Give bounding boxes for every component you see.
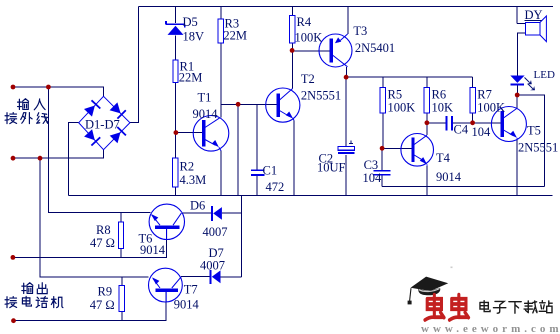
wire D6 anode to vertical xyxy=(222,212,242,214)
node input terminal 2 xyxy=(11,156,16,161)
capacitor C2 electrolytic xyxy=(338,141,355,154)
transistor T5 xyxy=(491,107,526,142)
resistor R3 xyxy=(218,19,223,43)
node T5 base junction xyxy=(470,120,475,125)
wire T1 emitter to ground rail xyxy=(220,151,222,196)
svg-text:T5: T5 xyxy=(527,124,541,138)
wire T5 collector riser xyxy=(516,95,518,108)
svg-text:2N5551: 2N5551 xyxy=(301,89,341,103)
diode D6 xyxy=(212,206,222,221)
LED xyxy=(510,76,535,91)
wire R9 top lead xyxy=(121,277,123,286)
transistor T7 xyxy=(149,268,183,302)
wire from input top junction down to T6 emitter row xyxy=(48,87,150,213)
wire T4 base xyxy=(382,147,413,149)
svg-text:472: 472 xyxy=(266,180,285,194)
wire from input lower junction down to T7 emitter row xyxy=(40,158,149,277)
svg-text:4007: 4007 xyxy=(203,225,228,239)
wire R3 top lead xyxy=(220,7,222,20)
resistor R4 xyxy=(290,16,295,44)
wire R7 bottom lead xyxy=(472,113,474,123)
svg-text:T3: T3 xyxy=(353,24,367,38)
svg-text:47 Ω: 47 Ω xyxy=(90,298,115,312)
wire R8 top lead xyxy=(120,213,122,222)
svg-text:D6: D6 xyxy=(190,199,205,213)
wire C3 bottom lead xyxy=(381,175,383,186)
wire T4 collector riser xyxy=(426,123,428,135)
svg-text:4007: 4007 xyxy=(200,259,225,273)
svg-text:www.eeworm.com: www.eeworm.com xyxy=(421,323,560,334)
wire T1 collector riser xyxy=(220,104,222,117)
node input terminal 1 xyxy=(11,85,16,90)
svg-text:DY: DY xyxy=(525,8,543,22)
transistor T6 xyxy=(149,204,184,239)
node label output chinese shu-chu xyxy=(22,283,47,294)
logo chongchong red characters xyxy=(425,295,469,320)
svg-text:10K: 10K xyxy=(432,101,454,115)
wire input bottom terminal to bridge bottom corner xyxy=(13,150,104,159)
wire T1 collector rail to T2 base xyxy=(221,103,278,105)
wire R6 bottom lead xyxy=(426,113,428,123)
node T1 collector junction xyxy=(236,102,241,107)
node output terminal 2 xyxy=(11,318,16,323)
wire D5 anode to R1 xyxy=(175,36,177,60)
wire T2 emitter to ground rail xyxy=(293,121,295,196)
node T4 base junction xyxy=(380,146,385,151)
capacitor C4 xyxy=(447,116,452,131)
wire output bottom terminal to T7 base xyxy=(14,292,167,321)
wire T3 collector to node xyxy=(345,67,347,77)
svg-text:104: 104 xyxy=(472,125,492,139)
resistor R5 xyxy=(380,88,385,114)
wire C1 bottom lead xyxy=(256,176,258,196)
svg-text:100K: 100K xyxy=(477,101,505,115)
svg-text:4.3M: 4.3M xyxy=(180,173,207,187)
svg-text:R7: R7 xyxy=(477,88,492,102)
node input junction top xyxy=(46,85,51,90)
wire LED cathode lead xyxy=(516,85,518,95)
zener diode D5 xyxy=(166,21,185,35)
diode bridge D1-D7 xyxy=(79,96,130,149)
svg-text:18V: 18V xyxy=(183,30,205,44)
logo graduation cap xyxy=(411,277,449,291)
wire T3 emitter to top rail xyxy=(347,7,349,34)
svg-text:R2: R2 xyxy=(180,160,195,174)
wire T5 emitter to ground rail xyxy=(516,139,518,196)
wire LED cathode node to right riser xyxy=(517,95,544,186)
wire left border down to bridge right corner xyxy=(130,7,139,123)
capacitor C1 xyxy=(251,170,265,175)
svg-text:2N5551: 2N5551 xyxy=(518,141,558,155)
node T2 collector junction xyxy=(290,48,295,53)
svg-text:10UF: 10UF xyxy=(317,161,346,175)
svg-text:9014: 9014 xyxy=(436,170,462,184)
wire R3 bottom to T1 collector rail xyxy=(220,43,222,104)
svg-text:22M: 22M xyxy=(179,71,203,85)
wire top supply rail xyxy=(139,6,554,8)
wire R5 top lead xyxy=(382,77,384,87)
transistor T3 pnp xyxy=(319,34,352,67)
svg-text:D5: D5 xyxy=(183,15,198,29)
transistor T1 xyxy=(193,116,229,152)
bridge diode bottom-right xyxy=(110,132,121,143)
wire R6 top lead xyxy=(426,77,428,87)
resistor R6 xyxy=(424,88,429,114)
wire LED return rail y186 xyxy=(382,185,544,187)
wire output top terminal to T6 base xyxy=(13,229,167,257)
svg-text:100K: 100K xyxy=(388,101,416,115)
wire top rail to D5 cathode xyxy=(175,7,177,24)
svg-text:9014: 9014 xyxy=(193,107,219,121)
wire R1 to T1 base node xyxy=(175,82,177,132)
transistor T4 xyxy=(401,134,434,167)
svg-text:C4: C4 xyxy=(454,123,469,137)
svg-text:R9: R9 xyxy=(98,285,113,299)
svg-text:T1: T1 xyxy=(198,91,212,105)
wire T2 collector riser xyxy=(292,50,294,88)
node label connect-outside-line chinese jie-wai-xian xyxy=(5,113,48,124)
wire input top terminal to bridge top corner xyxy=(13,87,104,96)
capacitor C3 xyxy=(373,171,390,175)
wire C4 right plate to T5 base xyxy=(452,122,502,124)
svg-text:R6: R6 xyxy=(432,88,447,102)
resistor R7 xyxy=(470,88,475,114)
logo black site name dian-zi-xia-zai-zhan xyxy=(480,301,552,314)
svg-text:R5: R5 xyxy=(388,88,403,102)
wire speaker top lead to top rail xyxy=(517,7,526,24)
wire ground rail xyxy=(69,194,553,196)
wire T6 collector to D6 xyxy=(181,212,211,214)
node LED cathode junction xyxy=(515,93,520,98)
wire R8 bottom lead xyxy=(120,249,122,258)
transistor T2 xyxy=(266,88,300,122)
resistor R8 xyxy=(118,222,123,249)
bridge diode top-right xyxy=(110,102,121,113)
svg-text:D1-D7: D1-D7 xyxy=(85,118,120,132)
node T3 collector junction xyxy=(344,75,349,80)
wire vertical joining D6 D7 to ground rail xyxy=(241,195,243,276)
wire T1 base xyxy=(176,132,204,134)
resistor R9 xyxy=(119,286,124,312)
svg-text:T2: T2 xyxy=(301,72,315,86)
diode D7 xyxy=(211,270,221,284)
svg-text:9014: 9014 xyxy=(140,243,166,257)
wire R4 bottom lead xyxy=(291,43,293,50)
svg-text:100K: 100K xyxy=(295,31,323,45)
node T4 collector junction xyxy=(425,120,430,125)
wire LED anode lead to speaker xyxy=(517,33,525,75)
wire C2 bottom lead xyxy=(345,155,347,195)
wire D7 anode to vertical xyxy=(221,276,242,278)
wire bridge left corner down to ground rail xyxy=(69,123,79,196)
wire node x238 down to ground rail xyxy=(237,104,239,195)
bridge diode bottom-left xyxy=(84,129,95,140)
wire C3 top lead xyxy=(381,148,383,170)
svg-text:T7: T7 xyxy=(184,283,198,297)
speaker DY xyxy=(524,16,546,42)
svg-text:9014: 9014 xyxy=(174,298,200,312)
wire R4 top lead xyxy=(291,7,293,16)
node label input chinese shu-ru xyxy=(18,99,46,110)
node input junction bottom xyxy=(38,156,43,161)
wire R9 bottom lead xyxy=(121,311,123,320)
svg-text:C1: C1 xyxy=(263,164,278,178)
wire node to C4 left plate xyxy=(427,122,446,124)
svg-text:104: 104 xyxy=(363,171,383,185)
wire R4 node to T3 base xyxy=(292,50,331,52)
svg-text:47 Ω: 47 Ω xyxy=(90,236,115,250)
node T1 base junction xyxy=(174,130,179,135)
bridge diode top-left xyxy=(84,106,95,117)
wire C2 top lead xyxy=(345,77,347,148)
resistor R2 xyxy=(173,158,178,187)
svg-text:LED: LED xyxy=(534,69,555,81)
resistor R1 xyxy=(173,60,178,82)
wire T1 base node through R2 to ground xyxy=(175,133,177,196)
wire resistor rail y77 xyxy=(346,76,473,78)
wire C1 top lead xyxy=(256,104,258,169)
watermark logo eeworm xyxy=(408,267,560,334)
svg-text:2N5401: 2N5401 xyxy=(355,41,395,55)
node label connect-telephone chinese jie-dian-hua-ji xyxy=(5,296,63,307)
wire R7 top lead xyxy=(472,77,474,87)
wire T7 collector to D7 xyxy=(181,276,210,278)
svg-text:T4: T4 xyxy=(436,151,451,165)
wire T4 emitter to ground rail xyxy=(426,166,428,196)
node output terminal 1 xyxy=(11,255,16,260)
logo stray dot xyxy=(451,267,453,269)
svg-text:22M: 22M xyxy=(223,29,247,43)
svg-text:R4: R4 xyxy=(297,15,312,29)
wire R5 bottom to T4 base node xyxy=(382,113,384,148)
